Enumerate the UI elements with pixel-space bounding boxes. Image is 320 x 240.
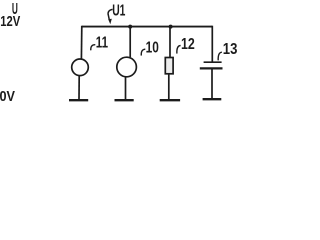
wire lamp 11 to ground xyxy=(78,76,80,100)
label U1 xyxy=(112,2,125,19)
junction node (branch 10) xyxy=(128,25,132,29)
wire top rail 12V xyxy=(82,26,213,28)
ground (branch 13) xyxy=(203,98,222,100)
wire rail to lamp 10 xyxy=(129,27,131,58)
svg-text:11: 11 xyxy=(96,35,108,52)
ground (branch 12) xyxy=(160,99,180,101)
lamp 11 xyxy=(72,59,89,76)
svg-text:U1: U1 xyxy=(112,2,125,19)
resistor 12 xyxy=(165,58,173,74)
arrow to node U1 xyxy=(108,9,113,24)
capacitor 13 bottom plate xyxy=(200,67,223,69)
ground (branch 10) xyxy=(115,99,134,101)
label 12 xyxy=(177,36,195,54)
label 13 xyxy=(218,41,237,61)
svg-text:12: 12 xyxy=(181,36,195,53)
wire capacitor 13 to ground xyxy=(211,69,213,98)
wire rail to resistor 12 xyxy=(169,27,171,58)
svg-text:13: 13 xyxy=(223,41,238,58)
capacitor 13 top plate xyxy=(204,61,222,63)
svg-text:0V: 0V xyxy=(0,88,15,105)
wire rail to lamp 11 xyxy=(80,26,82,60)
net label U 12V xyxy=(0,1,20,30)
junction node (branch 12) xyxy=(169,25,173,29)
wire rail to capacitor 13 xyxy=(211,26,213,62)
lamp 10 xyxy=(117,57,137,77)
ground (branch 11) xyxy=(69,99,88,101)
label 10 xyxy=(141,39,159,56)
wire resistor 12 to ground xyxy=(168,74,170,100)
svg-text:10: 10 xyxy=(146,39,159,56)
label 11 xyxy=(91,35,108,52)
svg-text:12V: 12V xyxy=(0,13,20,30)
net label 0V xyxy=(0,88,15,105)
wire lamp 10 to ground xyxy=(125,77,127,100)
